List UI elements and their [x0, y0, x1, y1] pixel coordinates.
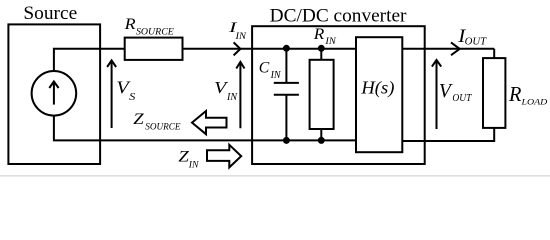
svg-text:IN: IN: [324, 36, 336, 47]
svg-text:H(s): H(s): [360, 77, 394, 98]
svg-text:IN: IN: [270, 70, 282, 81]
svg-text:R: R: [313, 26, 325, 43]
svg-text:OUT: OUT: [465, 37, 488, 48]
svg-text:DC/DC converter: DC/DC converter: [270, 7, 407, 27]
svg-text:R: R: [124, 16, 137, 33]
svg-text:IN: IN: [188, 159, 199, 170]
svg-text:IN: IN: [226, 92, 238, 103]
svg-text:S: S: [129, 92, 135, 103]
svg-text:IN: IN: [234, 31, 246, 42]
svg-text:SOURCE: SOURCE: [136, 27, 174, 38]
svg-text:SOURCE: SOURCE: [145, 121, 180, 132]
svg-text:Z: Z: [133, 111, 145, 128]
svg-text:R: R: [508, 82, 521, 106]
svg-text:LOAD: LOAD: [520, 97, 548, 107]
svg-text:OUT: OUT: [452, 93, 472, 104]
svg-text:C: C: [259, 60, 270, 77]
svg-text:Source: Source: [23, 3, 77, 24]
